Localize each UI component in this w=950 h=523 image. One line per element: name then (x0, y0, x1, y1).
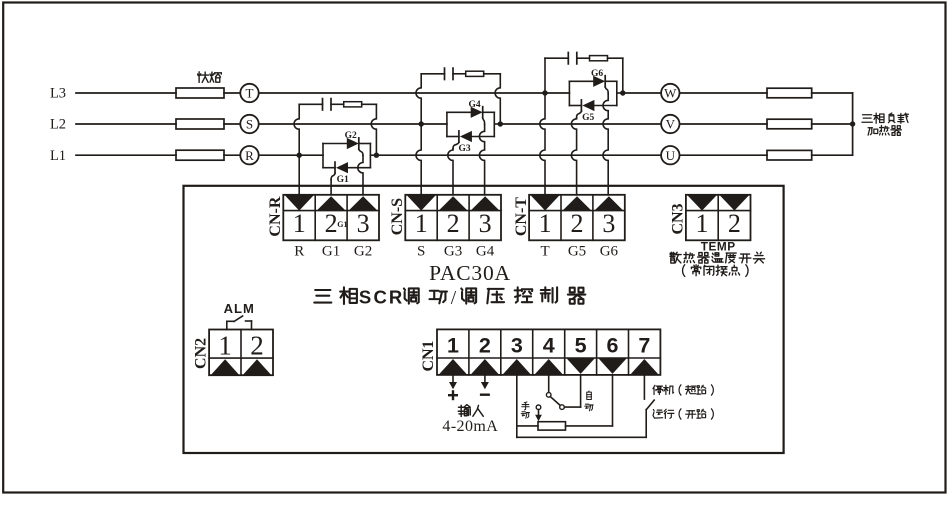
svg-text:G1: G1 (337, 220, 347, 229)
svg-text:V: V (666, 117, 676, 132)
svg-text:3: 3 (479, 209, 492, 238)
svg-text:3: 3 (602, 209, 615, 238)
svg-text:2: 2 (250, 330, 264, 360)
svg-text:G2: G2 (354, 244, 372, 260)
svg-text:R: R (294, 244, 304, 260)
svg-text:CN3: CN3 (670, 203, 687, 234)
svg-text:3: 3 (357, 209, 370, 238)
svg-text:2: 2 (447, 209, 460, 238)
svg-text:1: 1 (415, 209, 428, 238)
svg-text:L1: L1 (50, 148, 66, 164)
svg-text:1: 1 (218, 330, 232, 360)
svg-text:G1: G1 (322, 244, 340, 260)
svg-text:G5: G5 (568, 244, 586, 260)
svg-text:L2: L2 (50, 117, 66, 133)
svg-text:CN-R: CN-R (267, 196, 284, 236)
svg-text:W: W (664, 86, 677, 101)
svg-text:G3: G3 (459, 144, 471, 154)
svg-text:7: 7 (638, 333, 650, 357)
svg-text:S: S (417, 244, 425, 260)
svg-text:4-20mA: 4-20mA (442, 418, 498, 435)
svg-text:T: T (541, 244, 550, 260)
svg-text:1: 1 (293, 209, 306, 238)
svg-text:1: 1 (447, 333, 459, 357)
svg-text:CN-S: CN-S (389, 198, 406, 235)
svg-text:C: C (374, 287, 387, 308)
svg-text:2: 2 (571, 209, 584, 238)
svg-text:CN2: CN2 (192, 338, 209, 369)
svg-text:5: 5 (575, 333, 587, 357)
svg-text:4: 4 (543, 333, 555, 357)
svg-text:U: U (666, 148, 676, 163)
svg-text:ALM: ALM (224, 301, 255, 316)
svg-text:G4: G4 (476, 244, 495, 260)
svg-text:CN1: CN1 (420, 340, 437, 371)
svg-text:G4: G4 (469, 100, 481, 110)
svg-text:G6: G6 (600, 244, 619, 260)
svg-text:R: R (389, 287, 402, 308)
svg-text:G5: G5 (582, 113, 594, 123)
svg-text:S: S (246, 117, 253, 132)
svg-text:S: S (359, 287, 371, 308)
svg-text:G3: G3 (444, 244, 462, 260)
svg-text:2: 2 (325, 209, 338, 238)
svg-text:1: 1 (696, 209, 709, 238)
svg-text:G2: G2 (345, 131, 357, 141)
svg-text:G6: G6 (591, 69, 603, 79)
svg-text:/: / (451, 288, 457, 309)
svg-text:G1: G1 (337, 175, 349, 185)
svg-text:CN-T: CN-T (513, 197, 530, 236)
svg-text:3: 3 (511, 333, 523, 357)
svg-text:T: T (246, 86, 254, 101)
svg-text:2: 2 (479, 333, 491, 357)
svg-text:PAC30A: PAC30A (429, 261, 511, 285)
svg-text:L3: L3 (50, 86, 66, 102)
svg-text:6: 6 (607, 333, 619, 357)
svg-text:R: R (245, 148, 254, 163)
svg-text:TEMP: TEMP (701, 239, 736, 253)
svg-text:2: 2 (728, 209, 741, 238)
svg-text:1: 1 (539, 209, 552, 238)
